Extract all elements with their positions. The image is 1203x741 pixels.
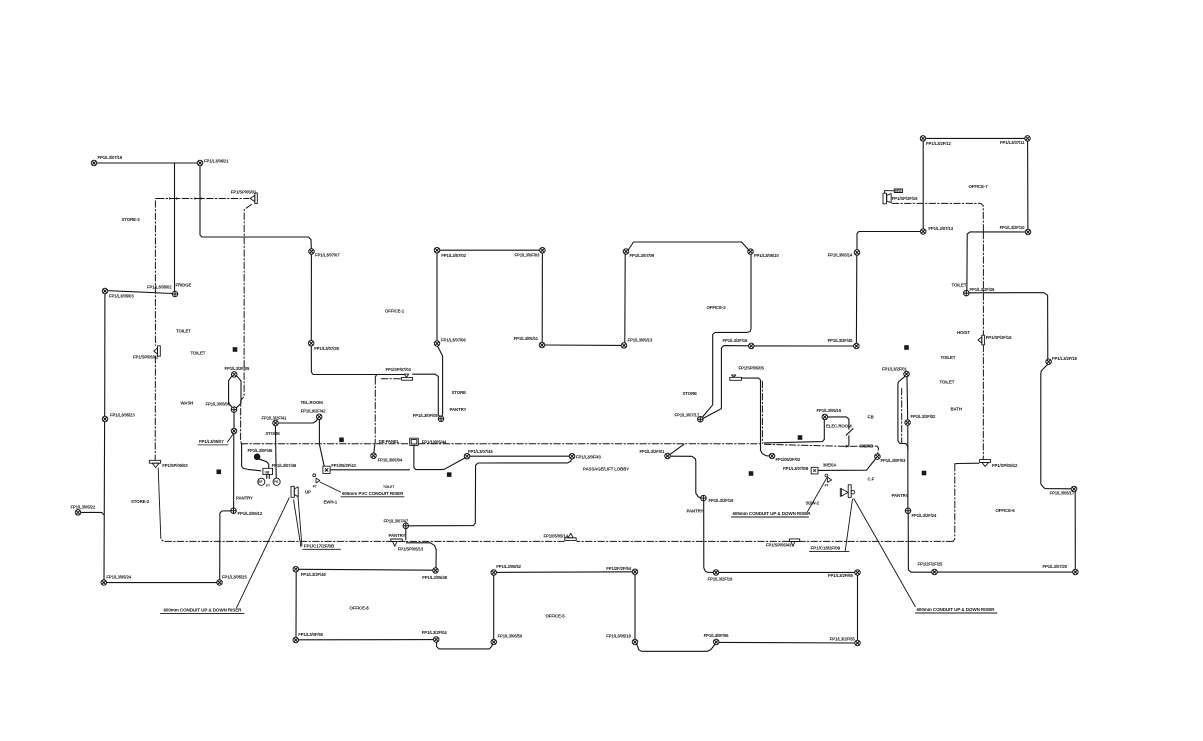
ceiling speaker FP1/SP/05/05 — [730, 375, 742, 380]
wire 0F/03 to control box — [818, 459, 875, 470]
light point FP1/2F/2F/25 — [932, 569, 938, 575]
svg-text:STORE: STORE — [266, 431, 281, 436]
wire 2F/01 to 2F/19 point — [670, 456, 700, 498]
svg-text:ELEC.ROOM: ELEC.ROOM — [826, 423, 852, 428]
light point FP1/L3/2F/19 — [701, 495, 707, 501]
light point FP1/L3/07/02 — [434, 247, 440, 253]
svg-text:F.B: F.B — [868, 414, 874, 419]
conduit horn run — [892, 203, 983, 231]
conduit to point 0F/03 — [765, 444, 879, 453]
junction box (filled square) — [447, 472, 452, 477]
wire conduit corner to UB — [242, 444, 261, 471]
svg-text:FP1/L3/05/22: FP1/L3/05/22 — [71, 504, 96, 509]
wire store to fridge — [105, 291, 172, 294]
wire 2F/42 to meter square — [319, 420, 324, 467]
light point FP1/L3/05/24 — [101, 580, 107, 586]
ceiling speaker FP1/SP/07/04 — [401, 374, 412, 380]
svg-text:FP1/L3/07/28: FP1/L3/07/28 — [314, 346, 339, 351]
light point FP1/L3/07/47 — [403, 523, 409, 529]
wire to point 2F/24 — [908, 514, 932, 573]
conduit vertical x983 lower — [982, 345, 984, 459]
conduit long horizontal east — [419, 443, 763, 445]
light point FP1/2F/2F/54 — [632, 569, 638, 575]
FS circle — [273, 478, 280, 485]
svg-text:TOILET: TOILET — [940, 379, 955, 384]
wire 07/41 drop to FS — [274, 426, 277, 478]
light point FP1/L3/07/06 — [434, 341, 440, 347]
junction box (filled square) — [922, 471, 927, 476]
svg-text:FP1/L3/05/52: FP1/L3/05/52 — [496, 564, 521, 569]
svg-text:FP1/L3/2F/26: FP1/L3/2F/26 — [970, 287, 996, 292]
svg-text:UB: UB — [265, 471, 270, 475]
wire riser x1028 — [1027, 141, 1029, 229]
svg-text:FP1/L3/05/02: FP1/L3/05/02 — [147, 285, 172, 290]
svg-text:OFFICE-7: OFFICE-7 — [969, 184, 989, 189]
svg-text:OFFICE-6: OFFICE-6 — [996, 508, 1016, 513]
conduit long horizontal west — [241, 443, 408, 445]
svg-text:FP1/L3/0F/46: FP1/L3/0F/46 — [248, 448, 274, 453]
svg-text:FP1/L3/0F/06: FP1/L3/0F/06 — [704, 633, 730, 638]
wire bottom-left run — [106, 582, 216, 584]
svg-text:FP1/L3/05/06: FP1/L3/05/06 — [206, 401, 231, 406]
svg-text:FP1/L3/2F/12: FP1/L3/2F/12 — [926, 141, 952, 146]
wire bar S5 to point 2F/02c — [742, 378, 770, 456]
wire elec room feed — [764, 420, 824, 443]
svg-text:FP1/L3/05/12: FP1/L3/05/12 — [238, 511, 263, 516]
light point FP1/L3/05/06 — [231, 407, 237, 413]
light point FP1/L3/2F/41 — [273, 420, 279, 426]
crossing ticks — [169, 197, 172, 200]
wire 05/52 run — [497, 571, 633, 574]
svg-text:OFFICE-8: OFFICE-8 — [350, 606, 370, 611]
junction box (filled square) — [798, 435, 803, 440]
svg-text:OFFICE-5: OFFICE-5 — [546, 614, 566, 619]
wire 2F/19 drop — [704, 501, 714, 573]
svg-text:TOILET: TOILET — [952, 282, 967, 287]
junction box (filled square) — [233, 347, 238, 352]
svg-text:UP: UP — [305, 489, 311, 494]
conduit stub y379 — [381, 378, 400, 380]
wire left riser lower — [103, 422, 106, 580]
light point FP1/L3/05/22 — [75, 510, 81, 516]
light point FP1/L3/07/17 — [698, 416, 704, 422]
speaker FP1/SP/2F/16 — [978, 335, 984, 345]
svg-text:FP1/L3/05/13: FP1/L3/05/13 — [628, 338, 653, 343]
svg-text:FP1/L3/2F/01: FP1/L3/2F/01 — [882, 366, 908, 371]
wire branch corner x375 — [375, 375, 376, 378]
svg-text:FP1/L3/07/0B: FP1/L3/07/0B — [783, 466, 808, 471]
svg-text:DB PANEL: DB PANEL — [379, 439, 400, 444]
light point FP1/L3/05/48 — [433, 568, 439, 574]
wire 0F/50 to 2F/04 — [299, 639, 434, 641]
light point FP1/L3/2F/19 — [713, 570, 719, 576]
light point FP1/L3/2F/45 — [854, 343, 860, 349]
conduit left vertical — [154, 201, 156, 345]
leader to riser text bottom-right — [854, 499, 916, 607]
light point FP1/L3/0F/43 — [569, 453, 575, 459]
svg-text:FP1/L3/05/24: FP1/L3/05/24 — [106, 575, 131, 580]
EF fan circle — [258, 478, 265, 485]
wire to point 2F/18 — [969, 293, 1048, 359]
svg-text:FP1/L3/07/07: FP1/L3/07/07 — [315, 253, 340, 258]
light point FP1/L3/2F/18 — [1046, 359, 1052, 365]
svg-text:FP1/L3/2F/02: FP1/L3/2F/02 — [911, 414, 937, 419]
wire right column riser — [907, 425, 909, 508]
svg-text:OFFICE-1: OFFICE-1 — [385, 309, 405, 314]
svg-text:FP1/L3/05/17: FP1/L3/05/17 — [1050, 491, 1075, 496]
svg-text:PANTRY: PANTRY — [236, 495, 253, 500]
svg-text:FP1/L3/2F/01: FP1/L3/2F/01 — [640, 449, 666, 454]
svg-text:FP1/2F/2F/54: FP1/2F/2F/54 — [606, 566, 632, 571]
light point FP1/L3/07/11 — [1025, 136, 1031, 142]
wire conduit drop to 05/04 — [373, 445, 376, 453]
svg-text:EF: EF — [258, 480, 262, 484]
conduit long bottom mid2 — [407, 540, 565, 542]
light point FP1/L3/05/02 — [172, 291, 178, 297]
wire loop left arc — [229, 376, 233, 407]
junction box (filled square) — [339, 438, 344, 443]
svg-text:PANTRY: PANTRY — [389, 533, 406, 538]
meter square with cross — [323, 466, 330, 473]
light point FP1/L3/0F/06 — [714, 639, 720, 645]
wire to point 05/48 — [406, 543, 436, 568]
svg-text:FP1/SP/05/03: FP1/SP/05/03 — [162, 463, 188, 468]
svg-text:FP1/L3/07/13: FP1/L3/07/13 — [928, 226, 953, 231]
conduit horizontal top-left — [158, 198, 249, 200]
wire 0F/46 to UB — [258, 459, 268, 469]
svg-text:FP1/L3/07/19: FP1/L3/07/19 — [98, 155, 123, 160]
svg-text:FP1/L3/0F/05: FP1/L3/0F/05 — [413, 413, 439, 418]
wire riser x857 — [855, 255, 857, 343]
svg-text:605mm PVC CONDUIT RISER: 605mm PVC CONDUIT RISER — [342, 491, 404, 496]
wire office-2 chamfer top — [629, 242, 749, 250]
conduit vertical x902 — [901, 389, 903, 443]
svg-text:TOILET: TOILET — [941, 355, 956, 360]
control box 30E/0A — [811, 467, 818, 474]
wire to speaker bar S4 — [311, 346, 404, 375]
svg-text:FP1/SP/2F/15: FP1/SP/2F/15 — [892, 196, 918, 201]
valve speaker near elec room — [840, 485, 854, 498]
light point FP1/L3/07/09 — [623, 249, 629, 255]
wire jog to conduit — [670, 444, 684, 454]
wire DB panel to 07/45 — [414, 446, 465, 470]
speaker FP1/SP/05/01 — [250, 193, 257, 204]
wire riser x311 — [310, 254, 312, 340]
wire 2F/55 riser — [857, 575, 859, 640]
light point FP1/L3/2F/01 — [904, 371, 910, 377]
svg-text:FP1/L3/07/20: FP1/L3/07/20 — [1043, 564, 1068, 569]
conduit long bottom mid — [577, 540, 789, 542]
light point FP1/L3/07/45 — [464, 453, 470, 459]
svg-text:FP1/L3/2F/24: FP1/L3/2F/24 — [912, 513, 938, 518]
ceiling speaker FP1/05/05/14 — [565, 533, 576, 540]
svg-text:FP1/L3/2F/65: FP1/L3/2F/65 — [828, 573, 854, 578]
svg-text:TEL.ROOM: TEL.ROOM — [301, 400, 324, 405]
svg-text:FP1/SP/05/43: FP1/SP/05/43 — [766, 542, 792, 547]
svg-text:FP1/05/2F/02: FP1/05/2F/02 — [776, 457, 801, 462]
wire office-2 inner drop — [703, 346, 749, 419]
wire ceiling sym S7 link — [955, 462, 979, 465]
light point FP1/L3/2F/55 — [855, 640, 861, 646]
wire bypass into 0F/05 — [438, 346, 443, 416]
light point FP1/L3/05/04 — [371, 453, 377, 459]
wall speaker UP riser — [291, 486, 298, 497]
wire 2F/49 to 05/48 — [299, 568, 433, 571]
svg-text:FP1/L3/07/02: FP1/L3/07/02 — [441, 253, 466, 258]
svg-text:FP1/L3/0F/43: FP1/L3/0F/43 — [576, 454, 602, 459]
svg-text:FP1/SP/05/12: FP1/SP/05/12 — [992, 463, 1018, 468]
svg-text:FP1/L3/2F/16: FP1/L3/2F/16 — [723, 338, 749, 343]
wire loop right arc — [236, 376, 241, 408]
wire elec switch lower — [848, 436, 850, 446]
ceiling speaker FP1/SP/05/03 — [149, 460, 160, 467]
light point FP1/L3/07/20 — [1073, 569, 1079, 575]
svg-text:600mm CONDUIT UP & DOWN RISER: 600mm CONDUIT UP & DOWN RISER — [164, 607, 243, 612]
wire 2F/54 riser — [634, 575, 636, 640]
DB panel box — [410, 438, 419, 445]
leader to riser text bottom-left — [237, 498, 290, 608]
wire drop to conduit line — [405, 529, 407, 540]
svg-text:FP1/05/05/14: FP1/05/05/14 — [544, 534, 569, 539]
svg-text:FP1/SP/05/13: FP1/SP/05/13 — [398, 547, 424, 552]
wire 05/25 to 05/12 — [220, 511, 231, 580]
svg-text:C.F: C.F — [868, 477, 875, 482]
wire 2F/02 to 2F/01 — [907, 377, 908, 420]
wire riser x437 — [436, 253, 438, 341]
light point FP1/L3/0F/03 — [540, 247, 546, 253]
svg-text:FP1/C18/2F/09: FP1/C18/2F/09 — [811, 545, 841, 550]
svg-text:FP1/L3/05/14: FP1/L3/05/14 — [828, 253, 853, 258]
wire passage return — [409, 459, 572, 526]
svg-text:FP1/L3/2F/45: FP1/L3/2F/45 — [828, 338, 854, 343]
conduit to ceiling sym S3 — [154, 357, 156, 460]
svg-text:BATH: BATH — [951, 406, 962, 411]
UB box — [263, 468, 273, 474]
wire UB leg left — [266, 475, 268, 479]
svg-text:FP1/L3/2F/10: FP1/L3/2F/10 — [1000, 225, 1026, 230]
conduit vertical x955 — [953, 464, 955, 541]
svg-text:PASSAGE/LIFT LOBBY: PASSAGE/LIFT LOBBY — [583, 466, 629, 471]
ceiling speaker FP1/SP/05/13 — [391, 539, 403, 546]
conduit vertical x375 — [374, 378, 376, 444]
light point FP1/L3/05/07 — [231, 428, 237, 434]
svg-text:605mm CONDUIT UP & DOWN RISER: 605mm CONDUIT UP & DOWN RISER — [733, 511, 812, 516]
wire elec switch upper — [828, 417, 849, 429]
conduit long bottom west — [161, 538, 405, 542]
svg-text:FP1/SP/05/01: FP1/SP/05/01 — [231, 189, 257, 194]
light point FP1/L9/2F/42 — [316, 414, 322, 420]
svg-text:FP1/L3/05/23: FP1/L3/05/23 — [110, 413, 135, 418]
svg-text:WASH: WASH — [181, 400, 194, 405]
wire to point 2F/45 — [754, 345, 854, 347]
conduit speaker drop — [241, 205, 252, 444]
svg-text:STORE: STORE — [452, 390, 467, 395]
wire 05/07 to 05/06 — [233, 412, 235, 428]
wire to point 05/17 — [1041, 364, 1072, 488]
svg-text:FP1/L3/0F/03: FP1/L3/0F/03 — [881, 458, 907, 463]
light point FP1/L3/06/21 — [197, 160, 203, 166]
svg-text:30E/0B: 30E/0B — [860, 444, 874, 449]
light point FP1/L3/07/19 — [91, 160, 97, 166]
svg-text:HR2: HR2 — [895, 189, 902, 193]
ceiling speaker FP1/SP/05/43 — [789, 539, 799, 546]
svg-text:FP1/L3/07/45: FP1/L3/07/45 — [468, 449, 493, 454]
svg-text:FP1/L3/2F/19: FP1/L3/2F/19 — [709, 498, 735, 503]
wire riser x923 — [922, 141, 924, 229]
light point FP1/L3/05/12 — [231, 508, 237, 514]
light point FP1/L3/2F/02 — [905, 420, 911, 426]
light point FP1/L3/05/25 — [217, 580, 223, 586]
wire drop to fridge point — [174, 163, 176, 292]
junction box (filled square) — [217, 470, 222, 475]
light point FP1/L3/07/07 — [309, 249, 315, 255]
conduit vertical x983 upper — [982, 232, 984, 335]
svg-text:FP1/SP/05/02: FP1/SP/05/02 — [133, 354, 159, 359]
wire office-1 lower — [545, 344, 622, 346]
svg-text:STORE: STORE — [683, 391, 698, 396]
svg-text:OFFICE-2: OFFICE-2 — [707, 305, 727, 310]
svg-text:PANTRY: PANTRY — [450, 407, 467, 412]
svg-text:FP1/SP/2F/16: FP1/SP/2F/16 — [986, 335, 1012, 340]
wire top-left run — [94, 162, 200, 164]
light point FP1/L3/05/11 — [539, 342, 545, 348]
light point FP1/L3/05/52 — [491, 570, 497, 576]
svg-text:STORE-2: STORE-2 — [131, 499, 150, 504]
light point FP1/L3/0F/50 — [293, 637, 299, 643]
svg-text:FP1/L3/05/25: FP1/L3/05/25 — [222, 575, 247, 580]
conduit vertical x762 — [761, 381, 763, 443]
wire 07/41 to 2F/42 — [278, 419, 318, 423]
wire office-1 top — [437, 249, 542, 251]
light point FP1/L3/2F/04 — [434, 637, 440, 643]
svg-text:FP1/L3/06/21: FP1/L3/06/21 — [204, 159, 229, 164]
wire 05/22 link — [78, 512, 104, 514]
wire 0F/06 to 2F/55 — [719, 641, 855, 644]
svg-text:TOILET: TOILET — [383, 485, 395, 489]
wire 05/50 riser — [493, 575, 495, 639]
svg-text:PANTRY: PANTRY — [892, 493, 909, 498]
leader to PVC riser text — [320, 482, 341, 492]
svg-text:FP1/L3/2F/49: FP1/L3/2F/49 — [301, 572, 327, 577]
wire riser x1075 — [1074, 492, 1076, 570]
svg-text:HOIST: HOIST — [957, 330, 970, 335]
svg-text:FP1/L3/05/50: FP1/L3/05/50 — [498, 634, 523, 639]
light point FP1/L3/2F/05 — [231, 372, 237, 378]
light point FP1/L3/0F/05 — [438, 416, 444, 422]
svg-text:FP1/L3/2F/19: FP1/L3/2F/19 — [708, 577, 734, 582]
svg-text:PANTRY: PANTRY — [687, 509, 704, 514]
light point FP1/L3/2F/16 — [749, 343, 755, 349]
light point FP1/L3/2F/65 — [855, 570, 861, 576]
svg-text:FP1/L3/2F/05: FP1/L3/2F/05 — [225, 366, 251, 371]
light point FP1/L3/2F/01 — [665, 453, 671, 459]
speaker FP1/SP/05/02 — [154, 346, 161, 356]
light point FP1/L3/05/14 — [854, 250, 860, 256]
svg-text:FP1/L3/05/15: FP1/L3/05/15 — [817, 408, 842, 413]
svg-text:FP1/L3/2F/55: FP1/L3/2F/55 — [830, 636, 856, 641]
svg-text:FP1/SP/05/05: FP1/SP/05/05 — [739, 366, 765, 371]
svg-text:FP1/05/2F/43: FP1/05/2F/43 — [331, 463, 356, 468]
svg-text:STORE-3: STORE-3 — [122, 217, 141, 222]
svg-text:FP1/L3/05/11: FP1/L3/05/11 — [514, 336, 539, 341]
svg-text:SDW-2: SDW-2 — [806, 500, 820, 505]
wire UB leg right — [268, 475, 270, 479]
leader to circuit tag FP1/C17 — [294, 500, 301, 547]
svg-text:FP1/L3/0F/03: FP1/L3/0F/03 — [515, 253, 541, 258]
leader to circuit tag FP1/C18 — [845, 499, 852, 551]
wire 2F/19 run — [719, 571, 855, 573]
svg-text:FP1/L3/07/09: FP1/L3/07/09 — [630, 253, 655, 258]
wire meter to DB panel — [330, 469, 409, 471]
conduit corner — [156, 198, 158, 200]
light point FP1/L3/07/28 — [308, 340, 314, 346]
wire into point 0F/05 — [413, 374, 440, 417]
svg-text:FP1/L3/07/06: FP1/L3/07/06 — [441, 338, 466, 343]
svg-text:FP1/L3/07/47: FP1/L3/07/47 — [384, 519, 409, 524]
wire office-7 top — [926, 137, 1025, 139]
light point FP1/L3/2F/49 — [293, 566, 299, 572]
wire to point 07/07 — [200, 163, 311, 249]
svg-text:FP1/L3/2F/41: FP1/L3/2F/41 — [262, 416, 288, 421]
light point FP1/05/2F/02 — [769, 453, 775, 459]
conduit link below S3 — [158, 468, 161, 538]
svg-text:FP1/L9/2F/42: FP1/L9/2F/42 — [301, 409, 327, 414]
svg-text:FP1/SP/07/04: FP1/SP/07/04 — [386, 367, 412, 372]
svg-text:FP1/L3/05/10: FP1/L3/05/10 — [754, 253, 779, 258]
svg-text:FP1/C17/2F/0B: FP1/C17/2F/0B — [304, 543, 335, 548]
svg-text:TOILET: TOILET — [176, 328, 191, 333]
wire office-2 left drop — [702, 254, 751, 417]
light point FP1/L3/05/10 — [748, 249, 754, 255]
junction box (filled square) — [904, 345, 909, 350]
svg-text:FP1/L3/05/07: FP1/L3/05/07 — [199, 439, 224, 444]
light point FP1/L3/2F/12 — [920, 136, 926, 142]
svg-text:FP1/L3/07/11: FP1/L3/07/11 — [1000, 140, 1025, 145]
light point FP1/L3/0F/03 — [875, 454, 881, 460]
svg-text:600mm CONDUIT UP & DOWN RISER: 600mm CONDUIT UP & DOWN RISER — [917, 607, 996, 612]
svg-text:EWH-1: EWH-1 — [324, 500, 338, 505]
svg-text:FP1/2F/2F/25: FP1/2F/2F/25 — [918, 562, 944, 567]
light point FP1/L3/05/50 — [491, 639, 497, 645]
svg-text:FP1/L3/07/46: FP1/L3/07/46 — [272, 463, 297, 468]
FT fitting right — [825, 474, 832, 482]
wire left riser upper — [104, 294, 106, 417]
horn speaker HR2 FP1/SP/2F/15 — [883, 189, 903, 204]
wire bottom right run — [937, 571, 1073, 573]
wire U-link 2F/04 to 05/50 — [437, 642, 493, 649]
wire link to 0F/06 — [637, 644, 715, 651]
svg-text:FP1/L3/0F/50: FP1/L3/0F/50 — [298, 632, 324, 637]
light point FP1/L3/07/13 — [920, 229, 926, 235]
svg-text:FP1/L3/07/17: FP1/L3/07/17 — [675, 413, 700, 418]
wire 05/12 riser — [233, 434, 235, 508]
light point FP1/L3/05/17 — [1071, 486, 1077, 492]
svg-text:TOILET: TOILET — [191, 350, 206, 355]
svg-text:FP1/10/05/44: FP1/10/05/44 — [422, 440, 447, 445]
junction box (filled square) — [749, 471, 754, 476]
conduit long bottom east — [800, 540, 953, 542]
light point FP1/L3/2F/10 — [1025, 229, 1031, 235]
light point FP1/L3/05/18 — [632, 639, 638, 645]
light point FP1/L3/05/23 — [102, 416, 108, 422]
switch arrow on conduit — [846, 445, 850, 448]
wire riser x542 — [541, 253, 543, 342]
light point FP1/L3/05/15 — [822, 414, 828, 420]
ceiling speaker FP1/SP/05/12 — [980, 459, 991, 466]
svg-text:FP1/L3/2F/04: FP1/L3/2F/04 — [422, 630, 448, 635]
svg-text:FP1/L3/05/18: FP1/L3/05/18 — [606, 633, 631, 638]
wire riser x625 — [624, 254, 626, 342]
